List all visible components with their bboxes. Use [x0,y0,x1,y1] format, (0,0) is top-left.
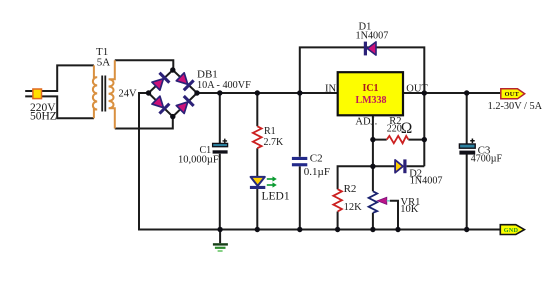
svg-text:ADJ.: ADJ. [355,116,377,127]
svg-text:0.1µF: 0.1µF [304,166,330,178]
svg-text:C2: C2 [310,152,323,164]
svg-text:12K: 12K [344,202,363,213]
svg-text:1.2-30V / 5A: 1.2-30V / 5A [488,101,543,112]
svg-text:OUT: OUT [406,83,428,94]
svg-text:1N4007: 1N4007 [356,31,389,42]
svg-text:R2: R2 [344,183,357,195]
svg-text:IN: IN [325,83,336,94]
svg-text:Ω: Ω [401,120,413,137]
svg-text:10A - 400VF: 10A - 400VF [197,80,251,91]
svg-text:OUT: OUT [505,91,520,98]
svg-text:10,000µF: 10,000µF [178,155,219,166]
svg-text:GND: GND [504,227,519,234]
svg-text:50HZ: 50HZ [30,110,57,122]
svg-text:1N4007: 1N4007 [410,176,443,187]
svg-text:R1: R1 [264,126,276,137]
svg-text:10K: 10K [400,204,419,215]
svg-text:24V: 24V [119,89,138,100]
svg-text:220: 220 [387,124,402,135]
svg-text:LM338: LM338 [355,95,386,106]
svg-text:LED1: LED1 [262,191,290,203]
svg-text:4700µF: 4700µF [471,153,503,164]
svg-text:IC1: IC1 [362,83,378,94]
svg-text:5A: 5A [97,57,111,69]
svg-text:DB1: DB1 [197,69,218,81]
svg-text:2.7K: 2.7K [264,137,285,148]
